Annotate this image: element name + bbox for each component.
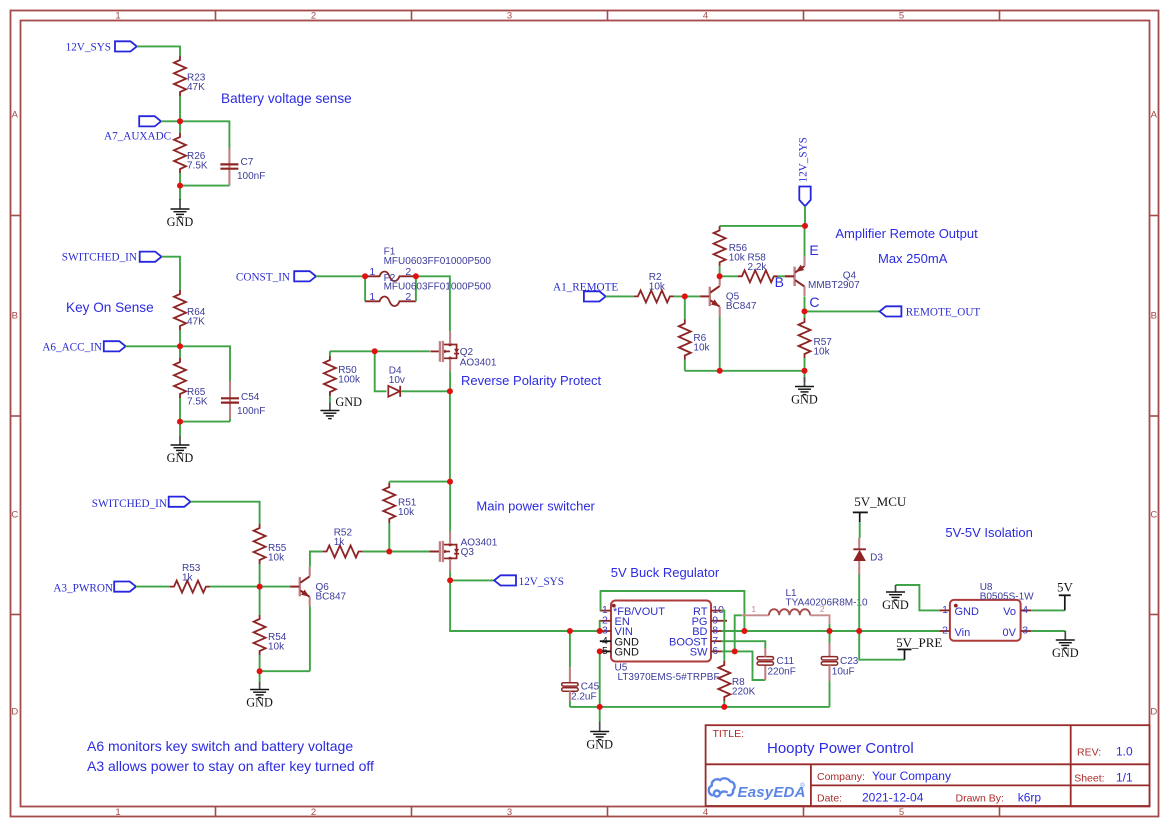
svg-text:5: 5 xyxy=(899,10,904,21)
svg-text:BC847: BC847 xyxy=(316,592,347,603)
svg-text:B: B xyxy=(775,274,784,290)
svg-text:REV:: REV: xyxy=(1077,747,1101,759)
svg-text:GND: GND xyxy=(167,215,194,229)
svg-text:5V Buck Regulator: 5V Buck Regulator xyxy=(611,565,720,580)
svg-text:SWITCHED_IN: SWITCHED_IN xyxy=(92,498,167,510)
svg-text:Drawn By:: Drawn By: xyxy=(956,793,1004,805)
svg-text:E: E xyxy=(809,242,818,258)
svg-text:C11: C11 xyxy=(777,656,795,667)
svg-text:SW: SW xyxy=(690,647,708,659)
svg-text:Main power switcher: Main power switcher xyxy=(476,499,595,514)
svg-text:Company:: Company: xyxy=(817,771,865,783)
svg-text:2: 2 xyxy=(311,807,316,818)
svg-text:2021-12-04: 2021-12-04 xyxy=(862,791,924,805)
svg-text:B: B xyxy=(12,310,18,321)
svg-text:100nF: 100nF xyxy=(237,406,265,417)
svg-text:C: C xyxy=(11,509,18,520)
svg-text:MFU0603FF01000P500: MFU0603FF01000P500 xyxy=(384,282,492,293)
svg-text:Hoopty Power Control: Hoopty Power Control xyxy=(767,740,914,757)
svg-text:7.5K: 7.5K xyxy=(187,161,208,172)
svg-text:C23: C23 xyxy=(840,656,859,667)
svg-text:C: C xyxy=(809,294,819,310)
svg-text:6: 6 xyxy=(712,645,718,657)
svg-text:1k: 1k xyxy=(334,537,346,548)
svg-text:Battery voltage sense: Battery voltage sense xyxy=(221,91,352,106)
svg-text:7.5K: 7.5K xyxy=(187,397,208,408)
svg-text:47K: 47K xyxy=(187,82,205,93)
svg-text:12V_SYS: 12V_SYS xyxy=(798,137,810,182)
svg-text:Reverse Polarity Protect: Reverse Polarity Protect xyxy=(461,373,602,388)
svg-text:MMBT2907: MMBT2907 xyxy=(808,280,860,291)
svg-text:GND: GND xyxy=(791,392,818,406)
svg-text:B0505S-1W: B0505S-1W xyxy=(980,591,1034,602)
svg-text:10v: 10v xyxy=(389,375,405,386)
svg-text:1: 1 xyxy=(115,807,120,818)
svg-text:5V-5V Isolation: 5V-5V Isolation xyxy=(945,525,1032,540)
svg-text:D: D xyxy=(11,706,18,717)
svg-text:3: 3 xyxy=(1022,625,1028,637)
svg-text:A: A xyxy=(1151,109,1158,120)
svg-text:Q2: Q2 xyxy=(460,347,474,358)
svg-text:BC847: BC847 xyxy=(726,301,757,312)
svg-text:220K: 220K xyxy=(732,687,756,698)
svg-text:MFU0603FF01000P500: MFU0603FF01000P500 xyxy=(384,256,492,267)
svg-text:100nF: 100nF xyxy=(237,171,265,182)
svg-text:k6rp: k6rp xyxy=(1018,791,1042,805)
svg-text:12V_SYS: 12V_SYS xyxy=(519,576,564,588)
svg-text:A6 monitors key switch and bat: A6 monitors key switch and battery volta… xyxy=(87,738,353,754)
svg-text:1: 1 xyxy=(942,604,948,616)
svg-text:1: 1 xyxy=(115,10,120,21)
svg-text:Sheet:: Sheet: xyxy=(1074,772,1104,784)
svg-text:10uF: 10uF xyxy=(832,667,855,678)
svg-text:®: ® xyxy=(800,783,805,790)
svg-text:EasyEDA: EasyEDA xyxy=(738,784,806,801)
svg-text:2: 2 xyxy=(405,266,411,278)
svg-text:10k: 10k xyxy=(649,282,666,293)
svg-text:2.2uF: 2.2uF xyxy=(571,692,597,703)
svg-text:3: 3 xyxy=(507,10,512,21)
svg-text:REMOTE_OUT: REMOTE_OUT xyxy=(906,306,981,318)
svg-text:B: B xyxy=(1151,310,1157,321)
svg-text:4: 4 xyxy=(703,10,708,21)
svg-text:10k: 10k xyxy=(398,507,415,518)
svg-text:1/1: 1/1 xyxy=(1116,770,1133,784)
svg-text:GND: GND xyxy=(615,647,640,659)
svg-text:2.2k: 2.2k xyxy=(748,262,768,273)
svg-text:Amplifier Remote Output: Amplifier Remote Output xyxy=(835,226,978,241)
svg-text:0V: 0V xyxy=(1003,627,1017,639)
svg-text:Q3: Q3 xyxy=(461,547,475,558)
svg-text:A6_ACC_IN: A6_ACC_IN xyxy=(42,341,102,353)
svg-text:3: 3 xyxy=(507,807,512,818)
svg-text:4: 4 xyxy=(1022,604,1028,616)
svg-text:C54: C54 xyxy=(241,392,260,403)
svg-text:AO3401: AO3401 xyxy=(460,358,497,369)
svg-text:TYA40206R8M-10: TYA40206R8M-10 xyxy=(786,598,869,609)
svg-text:5V_PRE: 5V_PRE xyxy=(896,635,942,650)
svg-text:GND: GND xyxy=(882,598,909,612)
svg-text:A3 allows power to stay on aft: A3 allows power to stay on after key tur… xyxy=(87,758,374,774)
svg-text:12V_SYS: 12V_SYS xyxy=(66,41,111,53)
svg-text:5V_MCU: 5V_MCU xyxy=(854,494,907,509)
svg-text:10k: 10k xyxy=(693,343,710,354)
svg-text:2: 2 xyxy=(311,10,316,21)
svg-text:Vo: Vo xyxy=(1003,606,1016,618)
svg-text:10k: 10k xyxy=(729,253,746,264)
svg-text:47K: 47K xyxy=(187,317,205,328)
svg-text:5: 5 xyxy=(899,807,904,818)
svg-text:4: 4 xyxy=(703,807,708,818)
svg-text:1: 1 xyxy=(751,604,756,614)
svg-text:A3_PWRON: A3_PWRON xyxy=(53,583,113,595)
svg-text:Key On Sense: Key On Sense xyxy=(66,300,154,315)
svg-text:1: 1 xyxy=(369,291,375,303)
svg-text:Max 250mA: Max 250mA xyxy=(878,251,948,266)
svg-text:C: C xyxy=(1150,509,1157,520)
svg-text:LT3970EMS-5#TRPBF: LT3970EMS-5#TRPBF xyxy=(618,672,720,683)
svg-text:GND: GND xyxy=(586,737,613,751)
svg-text:SWITCHED_IN: SWITCHED_IN xyxy=(62,252,137,264)
svg-text:Date:: Date: xyxy=(817,793,842,805)
svg-text:D3: D3 xyxy=(870,553,883,564)
svg-text:5V: 5V xyxy=(1057,580,1074,595)
svg-text:GND: GND xyxy=(955,606,980,618)
svg-text:Your Company: Your Company xyxy=(872,769,951,783)
svg-text:C7: C7 xyxy=(241,157,254,168)
svg-text:1.0: 1.0 xyxy=(1116,745,1133,759)
svg-text:GND: GND xyxy=(167,451,194,465)
svg-text:TITLE:: TITLE: xyxy=(713,728,745,740)
svg-text:A: A xyxy=(12,109,19,120)
svg-text:GND: GND xyxy=(335,395,362,409)
svg-text:2: 2 xyxy=(942,625,948,637)
svg-text:10k: 10k xyxy=(268,553,285,564)
svg-text:GND: GND xyxy=(1052,646,1079,660)
svg-text:1: 1 xyxy=(369,266,375,278)
svg-text:10k: 10k xyxy=(268,642,285,653)
svg-text:10k: 10k xyxy=(814,347,831,358)
svg-text:GND: GND xyxy=(246,695,273,709)
svg-text:220nF: 220nF xyxy=(768,667,796,678)
svg-text:A7_AUXADC: A7_AUXADC xyxy=(104,131,171,143)
svg-text:1k: 1k xyxy=(182,573,194,584)
svg-text:CONST_IN: CONST_IN xyxy=(236,271,290,283)
svg-text:Vin: Vin xyxy=(955,627,971,639)
svg-text:100k: 100k xyxy=(338,375,361,386)
svg-text:D: D xyxy=(1150,706,1157,717)
svg-text:5: 5 xyxy=(602,645,608,657)
